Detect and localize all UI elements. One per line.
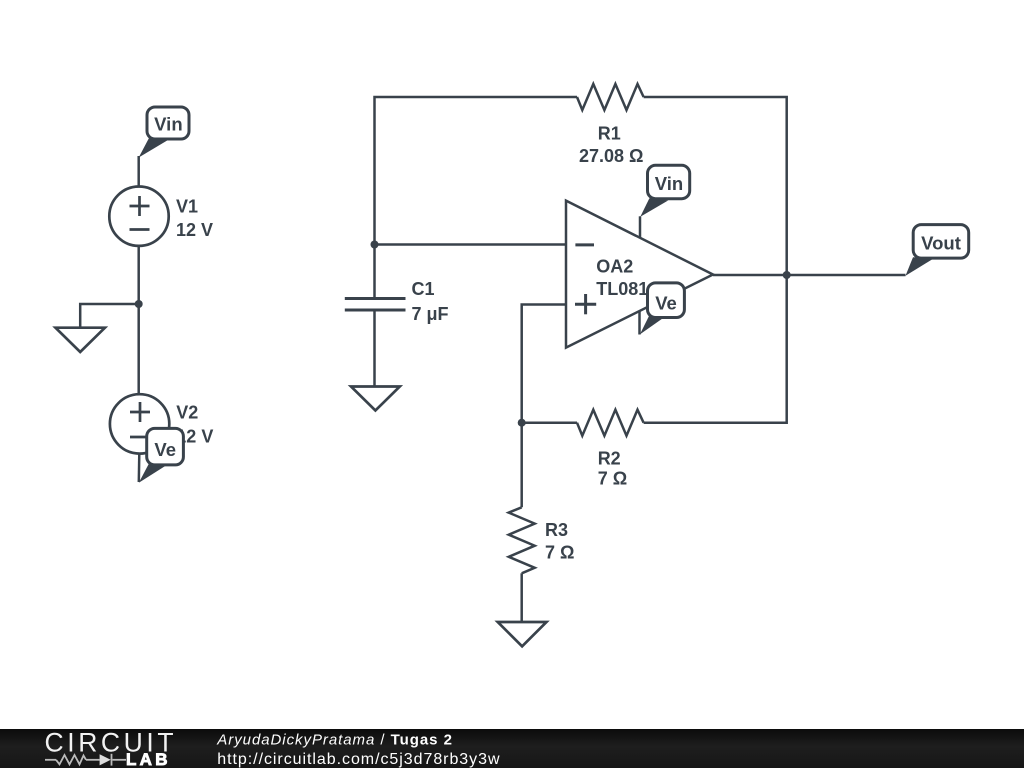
svg-text:R1: R1 (598, 124, 621, 144)
svg-text:Ve: Ve (655, 292, 677, 313)
logo diode triangle (100, 754, 111, 765)
voltage source V1 (109, 187, 168, 246)
svg-text:AryudaDickyPratama / Tugas 2: AryudaDickyPratama / Tugas 2 (216, 732, 453, 749)
op-amp plus symbol (575, 294, 596, 314)
svg-text:Vout: Vout (921, 232, 961, 253)
wire: R2 left segment (522, 421, 577, 424)
svg-text:Vin: Vin (655, 173, 683, 194)
wire: junction to op-amp inverting input (375, 243, 567, 246)
wire: V1 bottom to junction to V2 top (137, 246, 140, 395)
ground (below R3) (498, 622, 547, 646)
junction node: R2/R3/plus input (518, 419, 526, 427)
node flag Ve (op-amp V-) (640, 283, 685, 335)
svg-text:C1: C1 (412, 279, 435, 299)
svg-text:R3: R3 (545, 520, 568, 540)
svg-text:V1: V1 (176, 197, 198, 217)
wire: op-amp output to Vout (713, 274, 906, 277)
wire: Vin flag to V1 top (137, 156, 140, 187)
svg-text:OA2: OA2 (596, 257, 633, 277)
svg-text:27.08 Ω: 27.08 Ω (579, 146, 643, 166)
wire: C1 bottom to ground (373, 310, 376, 387)
junction node: V1/V2/ground (135, 300, 143, 308)
wire: R1 top left segment + left vertical down to C1 (375, 97, 578, 299)
op-amp minus symbol (575, 243, 594, 246)
logo doodle: lead-resistor-diode-lead (45, 754, 126, 766)
wire: R1 top right segment + right vertical + R2 right segment (644, 97, 787, 423)
op-amp OA2 (566, 201, 713, 348)
wire: op-amp noninverting input left (522, 305, 566, 423)
svg-text:R2: R2 (598, 449, 621, 469)
node flag Vout (output) (906, 225, 969, 276)
resistor R2 (577, 410, 644, 436)
svg-text:V2: V2 (176, 403, 198, 423)
svg-text:7 μF: 7 μF (412, 304, 449, 324)
svg-text:Vin: Vin (154, 113, 182, 134)
svg-text:LAB: LAB (126, 750, 171, 768)
junction node: C1 top / inverting input (371, 241, 379, 249)
node flag Ve (left circuit) (139, 428, 184, 482)
svg-text:http://circuitlab.com/c5j3d78r: http://circuitlab.com/c5j3d78rb3y3w (217, 751, 500, 768)
op-amp V- power pin (638, 311, 641, 335)
resistor R1 (577, 84, 644, 110)
wire: ground stub horizontal from junction (80, 304, 139, 328)
node flag Vin (op-amp V+) (640, 165, 689, 217)
footer bar (0, 729, 1024, 768)
wire: V2 bottom to Ve node (138, 453, 141, 482)
ground (below C1) (351, 387, 400, 411)
op-amp V+ power pin (639, 216, 642, 238)
wire: R3 bottom to ground (520, 573, 523, 622)
junction node: output feedback (783, 271, 791, 279)
svg-text:7 Ω: 7 Ω (598, 469, 627, 489)
node flag Vin (left circuit) (139, 107, 189, 158)
wire: R3 top from junction (520, 423, 523, 508)
svg-text:7 Ω: 7 Ω (545, 543, 574, 563)
ground (left, between V1 and V2) (56, 328, 105, 352)
capacitor C1 (345, 299, 406, 311)
svg-text:12 V: 12 V (176, 220, 213, 240)
voltage source V2 (110, 394, 169, 453)
svg-text:Ve: Ve (154, 439, 176, 460)
svg-text:TL081: TL081 (596, 279, 648, 299)
resistor R3 (509, 507, 535, 573)
